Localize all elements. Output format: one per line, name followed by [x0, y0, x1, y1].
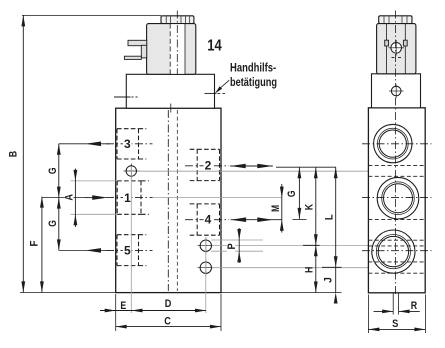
svg-text:M: M [270, 205, 282, 212]
svg-text:K: K [303, 204, 315, 210]
svg-text:L: L [323, 214, 335, 220]
svg-text:Handhilfs-: Handhilfs- [230, 62, 276, 75]
svg-text:B: B [8, 151, 20, 157]
svg-text:G: G [47, 167, 59, 174]
svg-text:A: A [64, 194, 76, 201]
svg-text:betätigung: betätigung [230, 76, 277, 89]
svg-text:J: J [323, 277, 335, 283]
svg-text:E: E [120, 300, 126, 312]
svg-text:G: G [47, 220, 59, 227]
svg-text:1: 1 [124, 191, 131, 205]
svg-text:H: H [303, 267, 315, 273]
svg-text:S: S [392, 318, 399, 330]
svg-text:P: P [226, 243, 238, 250]
svg-text:C: C [164, 315, 171, 327]
svg-text:R: R [411, 300, 417, 312]
svg-text:14: 14 [207, 38, 222, 55]
svg-text:5: 5 [124, 244, 131, 258]
svg-text:2: 2 [205, 159, 212, 173]
svg-text:4: 4 [205, 213, 212, 227]
svg-text:F: F [29, 240, 41, 246]
svg-text:3: 3 [124, 137, 131, 151]
svg-text:G: G [286, 190, 298, 197]
svg-text:D: D [165, 298, 172, 310]
